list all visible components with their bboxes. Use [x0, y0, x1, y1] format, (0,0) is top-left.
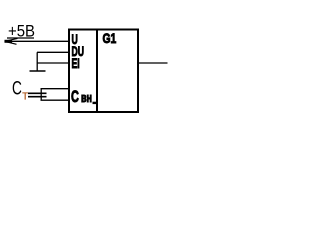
- wire capacitor bottom plate to pin Cv lower: [41, 99, 70, 101]
- wire +5V to pin U: [5, 40, 70, 42]
- pin tick after Cvn: [93, 102, 97, 104]
- output wire: [139, 62, 168, 64]
- underline of +5V label: [7, 37, 34, 39]
- capacitor CT plates: [28, 92, 47, 94]
- capacitor vertical stub: [40, 89, 42, 101]
- wire vertical to common: [36, 52, 38, 71]
- wire capacitor top plate to pin Cv upper: [41, 88, 70, 90]
- svg-text:вн: вн: [81, 92, 92, 106]
- svg-text:С: С: [71, 88, 79, 107]
- common (ground) bar: [30, 70, 46, 72]
- svg-text:Т: Т: [22, 91, 28, 102]
- svg-text:EI: EI: [72, 56, 80, 72]
- IC internal divider: [96, 29, 98, 113]
- wire DU pin to ground node: [37, 51, 69, 53]
- IC body G1: [69, 30, 138, 113]
- svg-text:С: С: [12, 77, 22, 99]
- wire EI pin to ground node: [37, 62, 69, 64]
- svg-text:G1: G1: [103, 30, 117, 46]
- supply tap arrow: [5, 38, 18, 44]
